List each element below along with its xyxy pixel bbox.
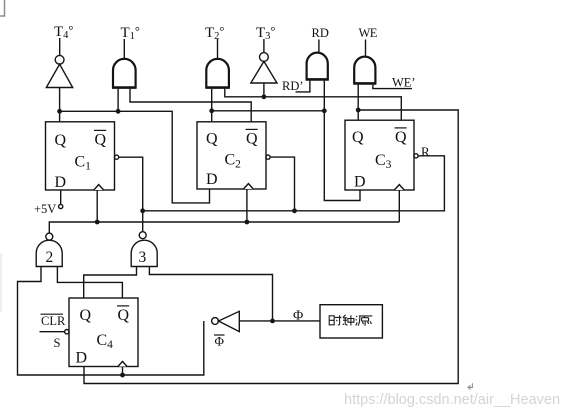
svg-text:D: D (55, 174, 67, 191)
svg-text:T1°: T1° (121, 24, 140, 42)
NAND gate 3 output bubble (139, 232, 146, 239)
label 2 (46, 249, 54, 266)
wire C2 reset branch (270, 157, 294, 211)
wire NAND2 left input to phi-bar line L1 (18, 267, 204, 376)
node T1 label (121, 24, 140, 42)
label S (54, 336, 61, 350)
watermark (344, 392, 560, 408)
inverter G7 (phi to phi-bar) (219, 311, 240, 331)
AND gate G5 (output RD) (306, 53, 329, 80)
label C3 (375, 152, 392, 171)
wire inverter G3 input down to Q3-bar net (263, 83, 265, 97)
wire G6 left input to Q3 rail (357, 85, 359, 110)
pin label Q-bar of C3 (395, 129, 407, 146)
svg-text:R: R (421, 144, 430, 159)
svg-text:S: S (54, 336, 61, 350)
wire G1 right input to Q2-bar (130, 89, 251, 122)
wire reset rail (143, 156, 445, 211)
wire inverter G4 input down to Q1 rail (59, 88, 61, 112)
wire G1 left input to Q1 rail (117, 89, 119, 112)
wire RD label to AND gate (318, 40, 320, 54)
NAND gate 2 body (36, 240, 62, 266)
wire phi net from inverter input to clock source (239, 320, 320, 322)
svg-text:RD: RD (312, 26, 329, 40)
wire D1 to +5V terminal (60, 190, 62, 204)
clock source box (320, 305, 382, 338)
svg-text:Q: Q (95, 132, 107, 149)
AND gate G1 (output T1) (112, 59, 137, 88)
flip-flop C1 box (46, 122, 115, 190)
junction dot Q2 at C2 (209, 108, 214, 113)
flip-flop C4 box (69, 298, 138, 367)
svg-text:T4°: T4° (54, 23, 73, 41)
svg-text:WE: WE (359, 26, 378, 40)
decorative left edge artifact (0, 253, 2, 312)
inverter G3 output bubble (260, 53, 269, 62)
junction dot Q1 at C1 (57, 109, 62, 114)
label C4 (97, 332, 114, 351)
wire T2 label to AND gate (217, 39, 219, 60)
wire C1 clock to clock rail (96, 190, 98, 222)
wire G2 right input to Q3-bar net (225, 89, 401, 120)
svg-text:https://blog.csdn.net/air__Hea: https://blog.csdn.net/air__Heaven (344, 392, 560, 408)
wire G2 left input to Q2 rail (211, 89, 213, 111)
svg-text:Q: Q (206, 131, 218, 148)
junction dot Q2 at G5 input (322, 108, 327, 113)
junction dot reset at NAND3 output (140, 208, 145, 213)
svg-text:WE’: WE’ (392, 76, 416, 90)
node RD label (312, 26, 329, 40)
label +5V (34, 202, 56, 216)
pin label Q of C4 (80, 307, 92, 324)
svg-text:Φ: Φ (215, 334, 225, 349)
inverter G4 output bubble (55, 55, 64, 64)
set bubble of C4 (65, 330, 69, 334)
wire T1 label to AND gate (123, 39, 125, 60)
svg-text:RD’: RD’ (282, 79, 304, 93)
pin label Q-bar of C1 (95, 132, 107, 149)
wire G6 right input to WE' stub (373, 85, 412, 89)
svg-text:Q: Q (55, 132, 67, 149)
node T3 label (256, 24, 275, 42)
label CLR overlined (41, 314, 66, 328)
pin label D of C3 (354, 174, 366, 191)
inverter G4 (drives T4) (46, 64, 72, 87)
junction dot clock at C2 (245, 220, 250, 225)
label R (421, 144, 430, 159)
label phi-bar (215, 334, 225, 349)
inverter G3 (drives T3) (251, 61, 277, 83)
svg-text:Q: Q (118, 307, 130, 324)
label C2 (225, 152, 242, 171)
svg-text:Q: Q (246, 131, 258, 148)
AND gate G6 (output WE) (353, 57, 376, 84)
wire NAND3 right input to phi (149, 267, 272, 321)
svg-text:Φ: Φ (293, 308, 303, 323)
svg-text:D: D (76, 350, 88, 367)
wire G5 right input to Q2 rail (and down to D3) (323, 81, 325, 111)
wire C2 clock to clock rail (246, 189, 248, 222)
wire C4 clock to phi-bar line L1 (122, 367, 124, 376)
pin label Q-bar of C2 (246, 131, 258, 148)
junction dot phi at NAND3 branch (270, 319, 275, 324)
wire clock rail (NAND2 output) (49, 222, 399, 233)
svg-text:D: D (206, 171, 218, 188)
pin label D of C2 (206, 171, 218, 188)
clock wedge of C4 (118, 361, 127, 366)
NAND gate 2 output bubble (46, 233, 53, 240)
pin label D of C1 (55, 174, 67, 191)
svg-text:Q: Q (80, 307, 92, 324)
label 3 (139, 249, 147, 266)
wire C3 clock to clock rail end (398, 190, 400, 222)
label clock source (Chinese: shi zhong yuan) (329, 315, 372, 326)
junction dot clock at C1 (95, 220, 100, 225)
pin label Q of C3 (352, 129, 364, 146)
wire Q2 rail (212, 111, 360, 201)
svg-text:C3: C3 (375, 152, 392, 171)
pin label Q of C1 (55, 132, 67, 149)
wire WE label to AND gate (365, 40, 367, 58)
svg-text:3: 3 (139, 249, 147, 266)
svg-text:+5V: +5V (34, 202, 56, 216)
flip-flop C3 box (345, 120, 414, 190)
reset bubble of C1 (115, 155, 119, 159)
clock wedge of C3 (394, 185, 404, 190)
svg-text:T2°: T2° (205, 24, 224, 42)
wire NAND3 left input to Q4 (84, 267, 137, 299)
svg-text:C1: C1 (75, 154, 92, 173)
node T2 label (205, 24, 224, 42)
flip-flop C2 box (197, 122, 266, 189)
wire T3 label to inverter (263, 39, 265, 53)
pin label Q of C2 (206, 131, 218, 148)
svg-text:C2: C2 (225, 152, 242, 171)
pin label Q-bar of C4 (118, 307, 130, 324)
svg-text:2: 2 (46, 249, 54, 266)
decorative corner bracket top-left (0, 0, 5, 16)
wire CLR/S stub (40, 331, 65, 333)
svg-text:T3°: T3° (256, 24, 275, 42)
node WE' label (392, 76, 416, 90)
clock wedge of C2 (244, 184, 254, 189)
reset bubble of C2 (266, 155, 270, 159)
wire Q1 rail (60, 111, 210, 203)
svg-text:Q: Q (352, 129, 364, 146)
junction dot reset at C2 branch (292, 208, 297, 213)
wire T4 label to inverter (59, 38, 61, 55)
svg-text:Q: Q (395, 129, 407, 146)
AND gate G2 (output T2) (205, 59, 230, 88)
svg-text:C4: C4 (97, 332, 114, 351)
inverter G7 output bubble (phi-bar) (212, 318, 219, 325)
wire G5 left input to RD' stub (296, 81, 310, 92)
label C1 (75, 154, 92, 173)
clock wedge of C1 (94, 185, 104, 190)
junction dot Q3 at C3 (356, 108, 361, 113)
pilcrow return mark (468, 383, 472, 389)
wire Q3 rail (to D4 via right side) (84, 110, 458, 384)
node T4 label (54, 23, 73, 41)
node WE label (359, 26, 378, 40)
label phi (293, 308, 303, 323)
node RD' label (282, 79, 304, 93)
svg-text:D: D (354, 174, 366, 191)
junction dot Q1 at G1 input (116, 109, 121, 114)
junction dot C4 clock on L1 (120, 373, 125, 378)
NAND gate 3 body (131, 240, 157, 266)
svg-text:CLR: CLR (41, 314, 66, 328)
pin label D of C4 (76, 350, 88, 367)
wire reset net from C1 bubble down (119, 157, 143, 231)
reset bubble of C3 (414, 154, 418, 158)
+5V terminal circle (59, 204, 63, 208)
junction dot T3 input on Q3-bar net (262, 94, 267, 99)
wire NAND2 right input to Q4-bar (57, 267, 122, 299)
